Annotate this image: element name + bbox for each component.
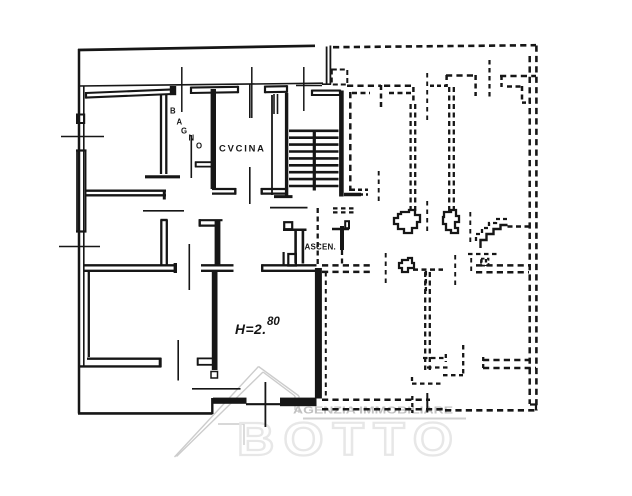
svg-text:80: 80 [267,316,280,328]
step h y383 [412,382,443,384]
right parapet box left v [500,76,503,88]
stair bottom cap left [274,195,293,198]
parapet row B1 [352,92,370,95]
bottom outer wall left [78,412,213,415]
pillar drop pair x449-454 [448,87,450,211]
door swing line room2 [143,210,184,212]
bottom-left room bottom wall [87,358,161,360]
stair center divider [313,130,316,191]
right parapet lower dash [507,85,522,88]
left wall radiator nub [77,115,84,124]
parapet stub x413 [412,87,415,104]
bottom step nub [211,372,218,379]
elevator right wall solid [340,226,344,250]
cucina bottom wall [212,188,236,190]
divider feet dashes [423,357,446,359]
elevator door square [288,254,296,266]
bottom wall mid line [246,403,281,405]
left wall window tick lower [59,246,100,248]
room1 right wall [160,94,162,174]
right parapet step h [522,101,531,104]
dashed bottom wall right [445,409,537,412]
svg-text:B: B [170,107,176,116]
bagno-cucina thick wall [211,89,216,189]
terrace divider x489 [488,60,490,97]
dashed top wall [333,45,536,47]
room1 right wall foot cap [145,175,180,178]
door axis corridor [188,244,190,290]
parapet dash row A1 [347,84,381,87]
elevator right stub bump [345,221,349,228]
landing edge line [270,207,308,209]
watermark underline [303,418,466,420]
stair door axis [303,67,305,111]
bottom room door axis [177,340,179,381]
dashed mid wall row far right [476,264,529,267]
top wall pier block [170,86,176,95]
bagno door jamb [195,161,212,163]
divider foot dashes [351,189,368,192]
right dark wall bar [315,268,322,399]
tee down x426 [425,271,427,291]
pillar blob 3 [399,258,414,272]
watermark BOTTO wordmark [237,413,462,465]
terrace window axis 1 [181,67,183,112]
parapet dash row A2 [384,84,413,87]
parapet row B2 [389,92,412,95]
svg-text:CVCINA: CVCINA [219,143,266,154]
bottom-left room left wall [88,272,90,357]
elevator left wall outline [294,229,297,264]
dashed right wall inner [528,56,531,404]
room top wall segment C (cucina right) [265,85,287,88]
mirrored stairs steps dashed [476,219,508,241]
svg-text:O: O [196,142,202,151]
mirrored stairs steps solid [481,225,508,248]
elevator right stub [332,228,349,231]
top right corner wall [326,47,328,85]
pillar blob 1 [394,210,420,233]
room top wall segment A [86,89,172,93]
bottom window axis [264,382,266,427]
stair treads [289,130,339,133]
divider x350 [349,92,352,191]
svg-text:G: G [181,127,187,136]
left wall window tick upper [61,136,104,138]
elevator top stub [283,229,307,232]
parapet raised box [446,74,476,77]
stair bottom cap right [344,193,361,196]
bottom wall thick segment 1 [213,398,247,404]
mirrored stairs top dash [508,225,530,228]
dashed bottom wall row upper [322,399,430,402]
terrace inner line [79,83,323,86]
parapet stub x381 [380,85,383,107]
axis x470 [469,212,471,246]
room2 bottom wall [83,264,176,266]
right parapet box top [500,75,536,78]
elevator top stub bump [284,222,292,229]
bagno door axis [190,135,192,178]
step v x412 [411,377,413,384]
room top wall segment B (bagno) [191,86,238,89]
left wall window box [76,150,78,232]
window axis x427 lower [426,201,428,235]
left outer wall [78,49,81,414]
right parapet step v [521,86,524,103]
bottom v-dash x394 [411,396,413,413]
elevator right wall dashed [341,250,343,266]
mid row bump [481,259,489,266]
svg-text:H=2.: H=2. [235,322,267,337]
dashed bottom wall row lower [322,408,445,411]
bottom wall thick segment 2 [280,398,317,407]
dashed box top-left [332,70,348,85]
big room wall foot nub [197,357,213,359]
watermark roof logo [175,367,300,458]
step h y375 [443,374,463,376]
hallway vertical wall [215,220,221,265]
dashed vertical x317 [317,208,319,264]
dashed mid wall row left [322,264,372,267]
terrace window axis 2 [251,67,253,118]
hallway cross wall [201,264,234,266]
mirrored corridor dash rows [333,207,356,209]
mirrored landing dashes [468,253,498,255]
bottom door swing line [192,388,241,390]
pillar drop pair x410-415 [409,104,411,211]
vert x463 [462,345,464,375]
dashed mid row right of blob [413,268,443,271]
bottom right hook [530,405,536,411]
parapet step to box [430,84,447,87]
axis x471 [470,258,472,272]
dashed rows right room bottom [483,359,529,362]
axis x378 upper [378,171,380,204]
svg-text:A: A [177,118,183,127]
bottom wall step [211,398,213,414]
axis x455 [454,255,456,285]
room top wall segment D (stair top) [312,90,340,92]
stair right wall [339,91,344,197]
cucina door axis lower [249,167,251,204]
svg-text:ASCEN.: ASCEN. [305,243,336,252]
stair left wall [271,95,273,195]
dashed room divider pair x425-430 lower [424,272,426,370]
outer top wall [78,46,315,50]
bottom window axis solid x427 [426,393,428,413]
mirror landing bit [480,259,482,266]
big room left thick wall [212,271,218,370]
stair door tick [296,85,322,87]
window axis x427 upper [426,73,428,124]
pillar blob 2 [443,210,459,233]
axis x385 [385,253,387,285]
terrace nub at corridor [273,94,275,114]
room1/room2 dividing wall [86,189,166,191]
corridor bottom wall [262,264,317,266]
dashed right wall outer [535,46,538,411]
corridor bottom wall piece [261,188,287,190]
dashes right of bar [325,272,327,396]
cucina door axis upper [249,84,251,118]
svg-text:BOTTO: BOTTO [237,413,462,465]
stair right foot dashes [352,193,368,196]
corridor wall vertical [160,220,162,267]
hallway corner wall [199,219,223,221]
